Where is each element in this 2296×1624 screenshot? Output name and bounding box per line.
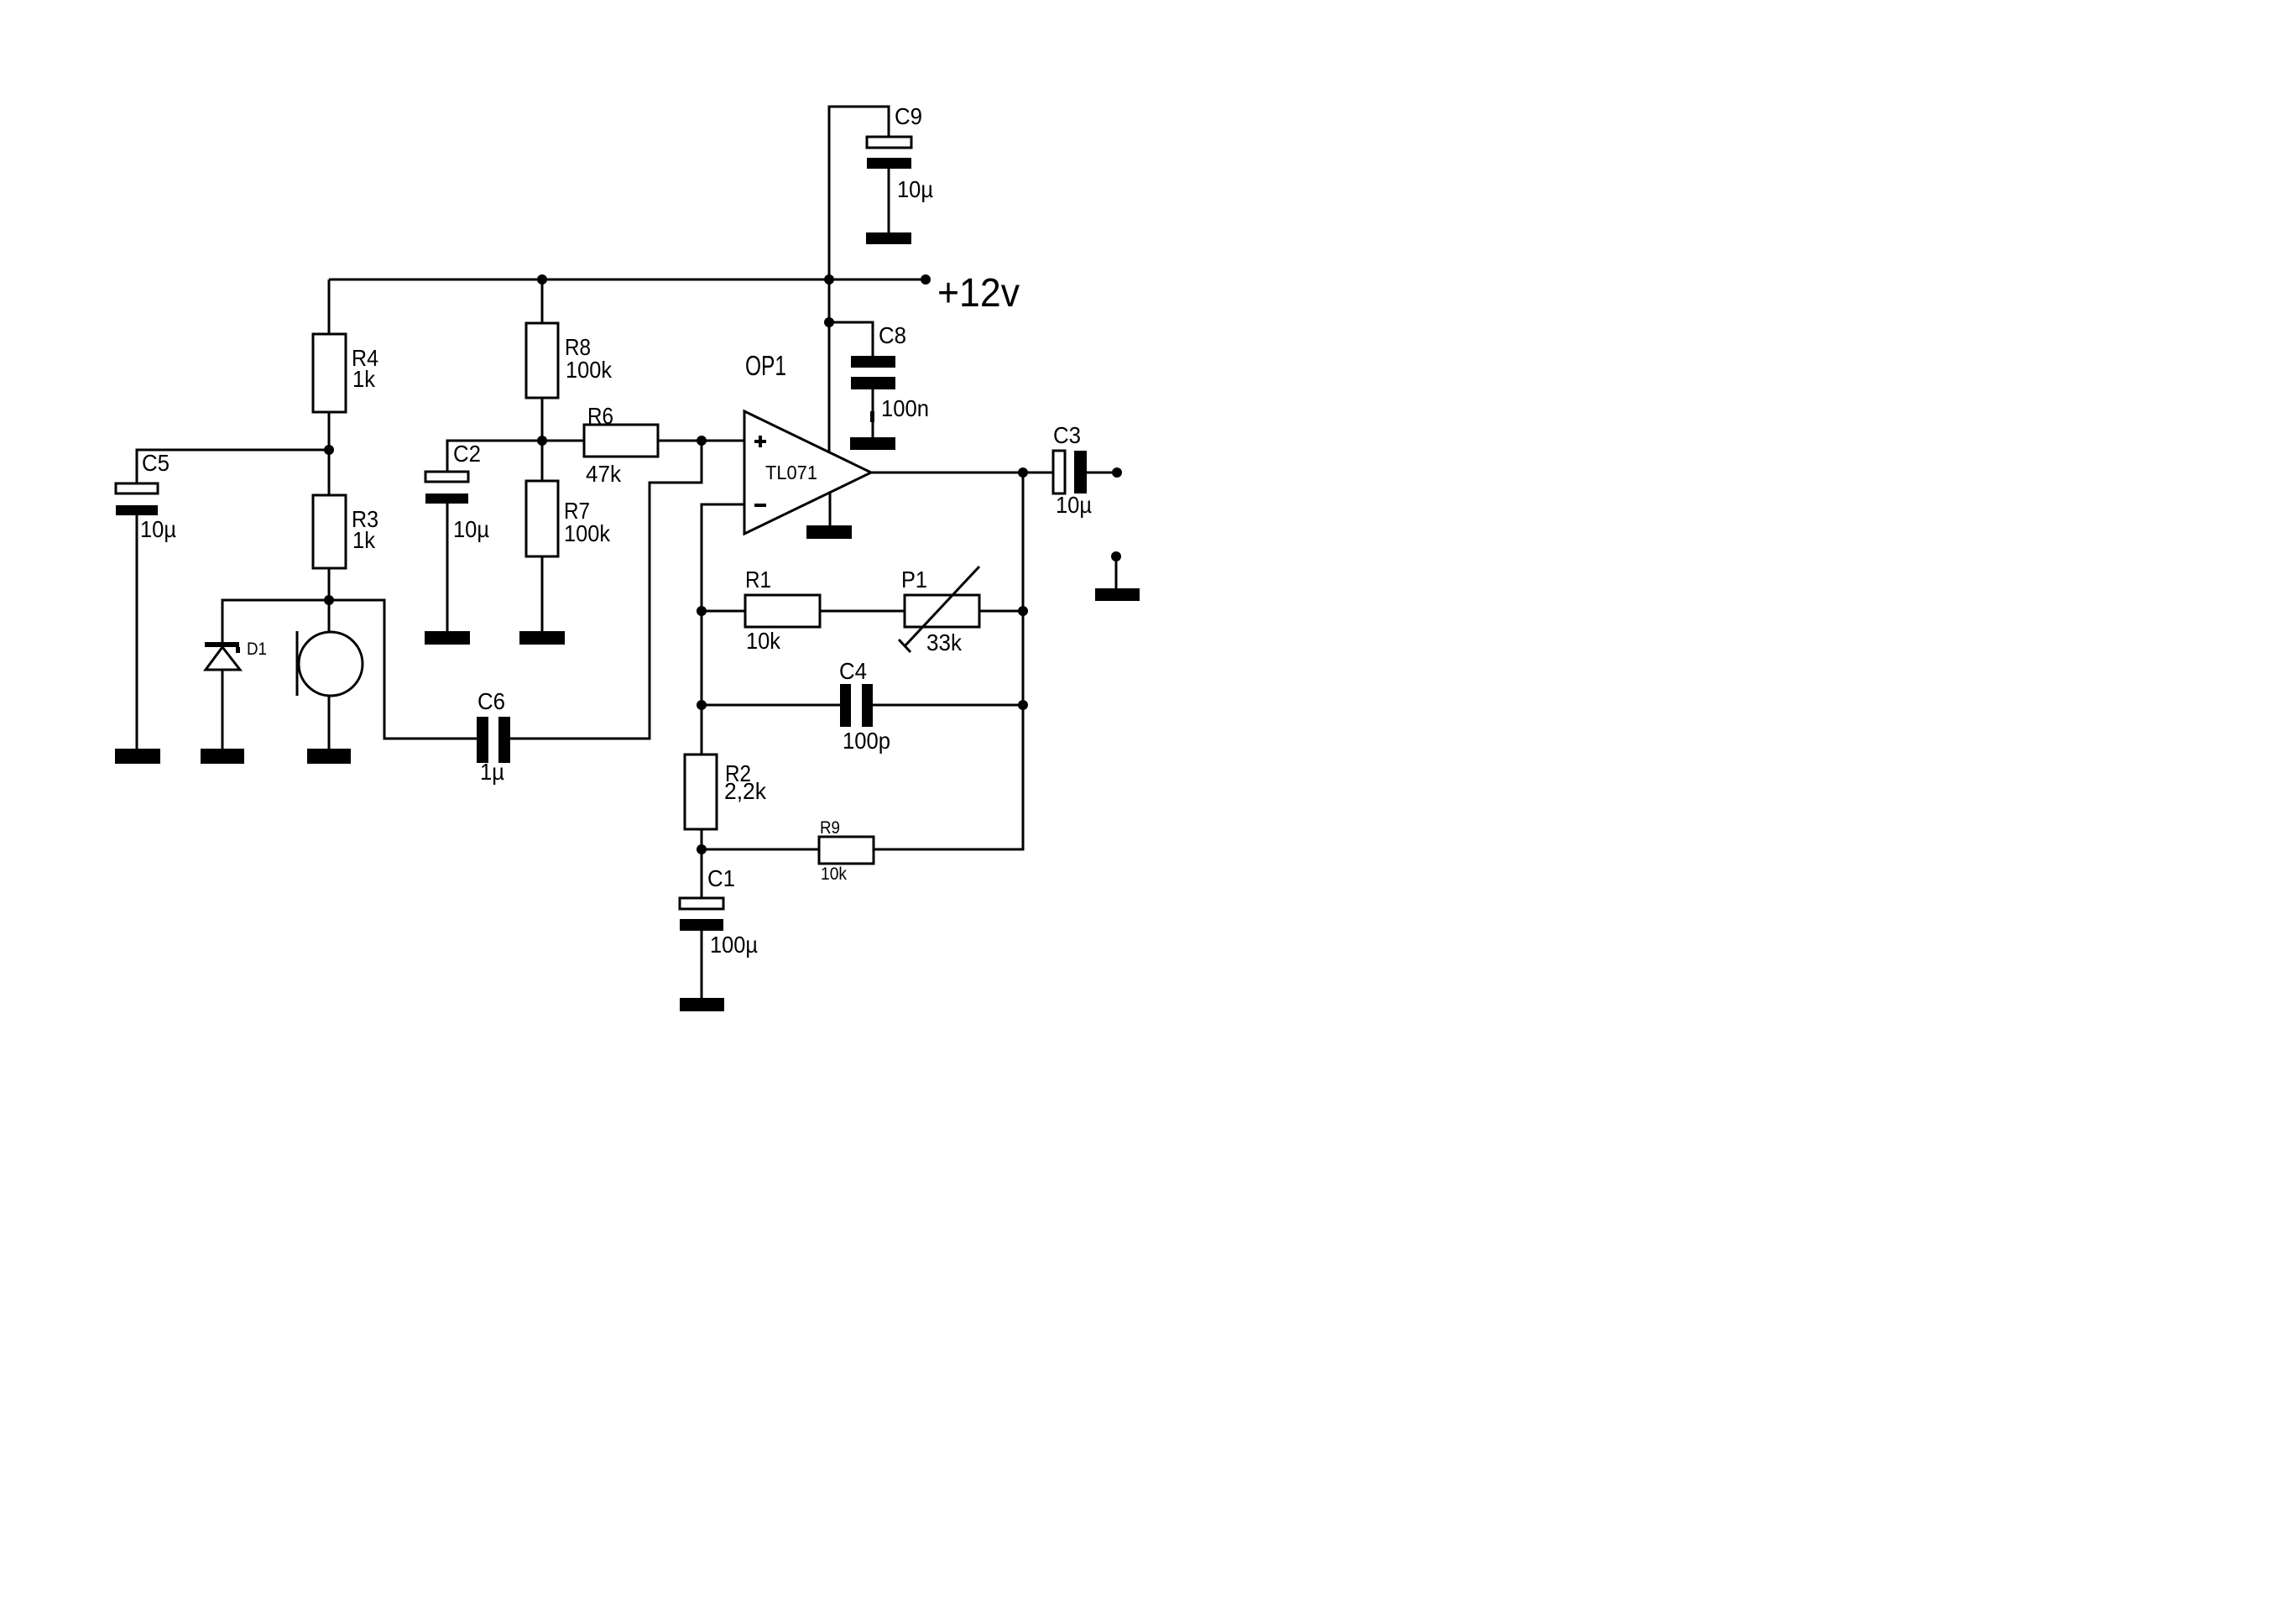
capacitor C5: [116, 450, 176, 542]
ground below C8: [850, 437, 895, 450]
wire output: [871, 472, 1023, 474]
svg-text:C6: C6: [477, 688, 505, 714]
svg-text:47k: 47k: [586, 461, 622, 487]
node junction + input: [697, 436, 707, 446]
svg-text:100n: 100n: [881, 395, 929, 421]
node junction R3/D1/mic/C6: [324, 595, 334, 605]
svg-text:R9: R9: [820, 818, 840, 838]
ground below D1: [201, 670, 244, 764]
resistor R2: [685, 755, 767, 898]
svg-text:100p: 100p: [843, 728, 890, 754]
wire - input: [702, 504, 744, 755]
svg-text:10µ: 10µ: [1056, 492, 1092, 518]
capacitor C4: [702, 658, 1023, 754]
svg-text:C1: C1: [707, 865, 735, 891]
node junction C4 right: [1018, 700, 1028, 710]
svg-text:C3: C3: [1053, 422, 1081, 448]
wire to C5: [137, 450, 329, 483]
resistor R6: [542, 403, 702, 487]
svg-text:1k: 1k: [352, 366, 376, 392]
svg-text:C5: C5: [142, 450, 170, 476]
svg-text:OP1: OP1: [745, 350, 786, 381]
svg-text:33k: 33k: [926, 629, 963, 655]
svg-text:P1: P1: [901, 567, 927, 593]
wire mic node to C6: [329, 600, 477, 739]
svg-text:C4: C4: [839, 658, 867, 684]
wire + input: [702, 440, 744, 442]
ground below C9: [866, 232, 911, 244]
ground below C2: [425, 504, 470, 645]
wire V+ feed: [828, 279, 831, 452]
capacitor C3: [1023, 422, 1117, 518]
ground below R7: [519, 631, 565, 645]
wire D1 branch: [222, 600, 329, 642]
ground below microphone: [307, 696, 351, 764]
capacitor C6: [477, 688, 510, 785]
svg-text:C2: C2: [453, 441, 481, 467]
capacitor C8: [851, 322, 929, 437]
node junction rail/C9 branch: [824, 274, 834, 285]
svg-text:TL071: TL071: [765, 462, 817, 483]
svg-text:10µ: 10µ: [140, 516, 176, 542]
resistor R7: [526, 441, 611, 631]
resistor R4: [313, 279, 378, 450]
svg-text:+12v: +12v: [937, 271, 1020, 316]
resistor R1: [702, 567, 905, 654]
svg-text:C8: C8: [879, 322, 906, 348]
node +12v terminal: [921, 274, 931, 285]
svg-text:C9: C9: [895, 103, 922, 129]
svg-text:100µ: 100µ: [710, 932, 758, 958]
node junction C8 branch: [824, 317, 834, 327]
resistor R9: [702, 818, 874, 884]
svg-text:1µ: 1µ: [480, 759, 504, 785]
svg-text:R1: R1: [745, 567, 771, 593]
node junction C4 left: [697, 700, 707, 710]
svg-text:100k: 100k: [566, 357, 613, 383]
node junction P1 right: [1018, 606, 1028, 616]
ground below C5: [115, 515, 160, 764]
capacitor C9: [867, 103, 933, 232]
resistor R3: [313, 450, 378, 600]
svg-text:10µ: 10µ: [897, 176, 933, 202]
svg-text:D1: D1: [247, 640, 267, 659]
svg-text:10µ: 10µ: [453, 516, 489, 542]
svg-text:2,2k: 2,2k: [724, 778, 767, 804]
op-amp U1 OP1 TL071: [744, 350, 871, 534]
ground below op-amp: [806, 493, 852, 539]
svg-text:1k: 1k: [352, 527, 376, 553]
wire +12v supply rail: [329, 279, 926, 281]
potentiometer P1: [899, 567, 1023, 655]
node junction - node/R1: [697, 606, 707, 616]
wire right feedback rail: [874, 473, 1023, 849]
floating ground symbol: [1095, 551, 1140, 601]
svg-text:10k: 10k: [746, 628, 781, 654]
node junction R2/R9/C1: [697, 844, 707, 854]
node junction R8/R6/R7/C2: [537, 436, 547, 446]
diode D1 zener: [205, 640, 267, 670]
node junction rail/R8: [537, 274, 547, 285]
node junction output: [1018, 467, 1028, 478]
wire C9 loop: [829, 107, 889, 279]
wire C2 top: [447, 441, 542, 472]
capacitor C2: [425, 441, 489, 542]
svg-text:R6: R6: [587, 403, 613, 429]
resistor R8: [526, 279, 613, 441]
node junction R4/R3/C5: [324, 445, 334, 455]
ground below C1: [680, 998, 724, 1011]
microphone: [297, 600, 363, 696]
node output terminal: [1112, 467, 1122, 478]
wire C6 to + input node: [510, 441, 702, 739]
capacitor C1: [680, 865, 758, 998]
svg-text:100k: 100k: [564, 520, 611, 546]
svg-text:10k: 10k: [821, 864, 847, 884]
wire C8 branch: [829, 322, 873, 356]
